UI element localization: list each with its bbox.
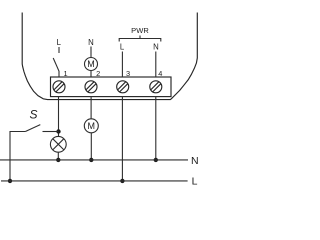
junction riser/L bus [8, 179, 12, 183]
wire into terminal 4 [155, 52, 157, 78]
N bus wire [0, 159, 188, 161]
wire into terminal 3 [121, 52, 123, 78]
svg-text:3: 3 [126, 69, 130, 78]
svg-text:L: L [192, 176, 198, 188]
svg-text:4: 4 [158, 69, 162, 78]
svg-text:M: M [87, 59, 95, 69]
terminal screw 1 [53, 81, 65, 93]
svg-text:L: L [57, 38, 62, 47]
wire terminal 4 down to N bus [155, 97, 157, 160]
svg-text:S: S [29, 107, 37, 121]
switch S blade [25, 125, 40, 132]
PWR bracket [119, 36, 161, 42]
terminal strip box [51, 77, 172, 97]
wire terminal 3 down to L bus [121, 97, 123, 181]
wire terminal 1 down to lamp [58, 97, 60, 137]
junction wire3/L bus [120, 179, 124, 183]
svg-text:L: L [120, 43, 125, 52]
svg-text:N: N [88, 38, 94, 47]
wire into terminal 1 [58, 71, 60, 77]
switch S left wire from L riser [10, 132, 25, 181]
lamp E1 [50, 136, 66, 152]
svg-text:N: N [191, 155, 199, 167]
svg-text:2: 2 [96, 69, 100, 78]
switch S fixed contact wire [43, 131, 59, 133]
junction lamp/N bus [56, 158, 60, 162]
svg-text:M: M [88, 121, 96, 131]
wire N to motor [90, 47, 92, 58]
svg-text:1: 1 [63, 69, 67, 78]
wire L stub [58, 47, 60, 53]
terminal screw 2 [85, 81, 97, 93]
junction switch/lamp [56, 129, 60, 133]
enclosure outline [22, 13, 197, 100]
junction wire4/N bus [154, 158, 158, 162]
wire motor to N bus [90, 133, 92, 160]
svg-text:PWR: PWR [131, 26, 149, 35]
wire motor to terminal 2 [90, 71, 92, 78]
L bus wire [1, 180, 188, 182]
switch blade above terminal 1 [53, 58, 59, 71]
terminal screw 3 [117, 81, 129, 93]
motor M2 (middle) [84, 119, 98, 133]
wire terminal 2 down to motor [90, 97, 92, 119]
wire lamp to N bus [57, 152, 59, 160]
junction motor/N bus [89, 158, 93, 162]
motor M1 (top) [85, 58, 98, 71]
terminal screw 4 [150, 81, 162, 93]
svg-text:N: N [153, 43, 159, 52]
